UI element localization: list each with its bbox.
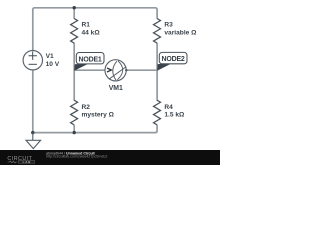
svg-text:http://circuitlab.com/cwee427p: http://circuitlab.com/cwee427pc5rndu2 — [46, 154, 107, 158]
footer bar — [0, 150, 220, 165]
wire R2 bottom stub — [73, 125, 75, 134]
svg-text:NODE2: NODE2 — [162, 56, 185, 63]
svg-text:mystery Ω: mystery Ω — [82, 111, 115, 118]
junction dot bottom R2 — [73, 131, 76, 134]
VM1 polarity chevron — [107, 68, 111, 72]
resistor R4 — [154, 100, 161, 125]
svg-text:VM1: VM1 — [109, 85, 123, 92]
resistor R2 — [71, 100, 78, 125]
wire VM1 right horizontal — [126, 69, 157, 71]
node NODE1 flag wedge — [74, 64, 89, 71]
node NODE2 box — [159, 52, 187, 63]
VM1 meter arc left — [113, 61, 117, 80]
wire VM1 left horizontal — [74, 69, 105, 71]
wire R1 to R2 vertical — [73, 43, 75, 101]
svg-text:44 kΩ: 44 kΩ — [82, 29, 101, 36]
svg-text:LAB: LAB — [23, 160, 32, 164]
ground — [32, 133, 34, 141]
VM1 needle — [109, 67, 126, 80]
svg-text:1.5 kΩ: 1.5 kΩ — [164, 111, 185, 118]
svg-text:NODE1: NODE1 — [79, 56, 102, 63]
junction dot bottom left — [31, 131, 34, 134]
VM1 meter arc right — [117, 61, 122, 80]
wire bottom horizontal with rounded right corner — [33, 125, 157, 133]
svg-text:R3: R3 — [164, 21, 173, 28]
node NODE1 box — [76, 53, 104, 64]
node NODE2 flag wedge — [157, 63, 172, 70]
wire top loop V1 to R3 with rounded corners — [33, 8, 157, 51]
resistor R1 — [71, 19, 78, 44]
resistor R3 — [154, 19, 161, 44]
VM1 right terminal dot — [125, 69, 127, 71]
V1 plus sign — [29, 52, 37, 60]
wire R1 top stub — [73, 8, 75, 19]
wire right vertical middle — [156, 43, 158, 101]
svg-text:variable Ω: variable Ω — [164, 29, 197, 36]
CircuitLab logo zigzag — [8, 161, 18, 163]
junction dot top R1 — [73, 6, 76, 9]
svg-text:10 V: 10 V — [46, 61, 60, 68]
CircuitLab logo LAB box — [18, 160, 34, 163]
voltage source V1 — [23, 51, 42, 70]
wire left vertical lower — [32, 70, 34, 133]
svg-text:R4: R4 — [164, 104, 173, 111]
V1 minus sign — [29, 63, 37, 65]
svg-text:V1: V1 — [46, 53, 54, 60]
svg-text:R2: R2 — [82, 104, 91, 111]
svg-text:R1: R1 — [82, 21, 91, 28]
voltmeter VM1 — [105, 60, 126, 81]
